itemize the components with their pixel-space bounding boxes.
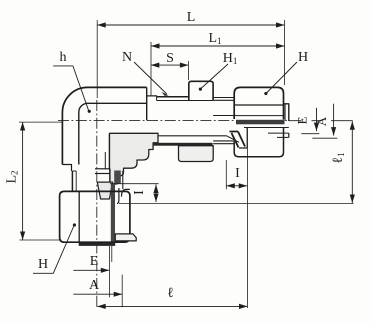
tube line between nuts (213, 115, 234, 117)
dimension L1 (151, 45, 285, 47)
svg-text:E: E (295, 116, 310, 124)
tube line under nut H (234, 115, 283, 117)
thread engage dark bar (114, 171, 121, 185)
dimension I horizontal leg (226, 185, 247, 187)
centerline vertical (96, 100, 98, 309)
nut H inner line lower (244, 127, 289, 129)
nut H shoulder line (234, 104, 283, 106)
thread root horizontal (157, 100, 214, 102)
thread root vertical leg (75, 171, 77, 191)
nut H1 (189, 81, 213, 100)
nut bottom dark bar (79, 243, 116, 246)
hex corner line (78, 191, 80, 242)
nut H (234, 87, 283, 119)
dimension A bottom (73, 293, 122, 295)
sleeve lines between nuts lower (213, 140, 234, 142)
sleeve lines between nuts (213, 97, 234, 99)
thread crest vertical leg (71, 171, 73, 191)
leader H1 (202, 64, 229, 88)
thread crest horizontal (157, 96, 189, 98)
dimension E right (316, 108, 318, 131)
leader N (134, 62, 167, 94)
bottom tab (115, 234, 136, 241)
dimension S (151, 64, 189, 66)
svg-text:L: L (187, 10, 196, 25)
elbow bore inner arc (79, 103, 147, 164)
dimension l (97, 305, 247, 307)
dimension A right (333, 104, 335, 136)
leader h (53, 66, 88, 110)
dimension L2 (22, 122, 24, 240)
tube lower lines (268, 132, 289, 134)
body tube taper under nut H (227, 136, 239, 143)
neck horizontal leg (147, 95, 157, 98)
svg-text:I: I (132, 190, 147, 195)
tube end block (284, 104, 289, 121)
sleeve wedge vertical leg (97, 182, 112, 199)
svg-text:S: S (166, 51, 174, 66)
svg-text:A: A (89, 278, 100, 293)
svg-text:E: E (90, 254, 99, 269)
thread band under nut H (236, 120, 285, 125)
nut H1 lower tab (179, 146, 214, 162)
nut H lower section (234, 128, 283, 157)
staircase section fill (110, 133, 159, 184)
dimension l1 (351, 121, 353, 203)
svg-text:h: h (60, 50, 67, 65)
nut step (122, 189, 130, 196)
vertical leg: body end step (62, 165, 71, 172)
nut bottom dark bar (111, 184, 115, 244)
svg-text:ℓ: ℓ (167, 286, 174, 301)
centerline horizontal (58, 120, 289, 122)
bore wall right (109, 169, 111, 184)
tube stop lines (95, 168, 110, 170)
nut inner wall (117, 188, 119, 203)
thread end vertical (156, 97, 158, 101)
leader H bottom (33, 227, 74, 274)
elbow body outer contour (62, 87, 146, 164)
nut H bottom: outline (60, 191, 130, 242)
sleeve section under nut H (230, 132, 246, 148)
dimension I vertical leg (155, 185, 157, 203)
short inner line (104, 152, 106, 169)
svg-text:H: H (298, 50, 308, 65)
thread bar lower (153, 143, 213, 146)
body end edge horizontal leg (146, 87, 148, 120)
dimension L (97, 24, 284, 26)
leader H top (267, 62, 297, 93)
svg-text:N: N (122, 50, 132, 65)
svg-text:I: I (235, 166, 240, 181)
svg-text:H: H (38, 257, 48, 272)
dimension E bottom (73, 269, 109, 271)
svg-text:A: A (314, 116, 329, 126)
corner bore lines (110, 132, 159, 134)
